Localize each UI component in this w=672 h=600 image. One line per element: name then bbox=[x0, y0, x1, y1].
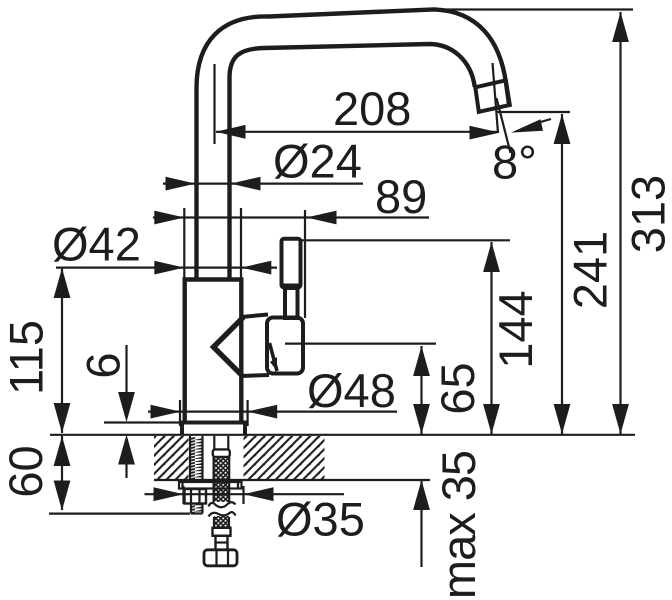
svg-text:8°: 8° bbox=[492, 136, 537, 189]
dim 313 bottom arrow bbox=[612, 404, 629, 434]
svg-text:89: 89 bbox=[375, 170, 427, 223]
dim 208 left arrow bbox=[216, 125, 246, 139]
dim O24 left arrow bbox=[166, 177, 196, 191]
ext line flange right bbox=[247, 400, 249, 426]
base flange bbox=[182, 423, 245, 435]
svg-text:208: 208 bbox=[333, 82, 411, 135]
dim 60 line bbox=[61, 436, 63, 510]
dim 65 top arrow bbox=[413, 346, 430, 376]
svg-text:241: 241 bbox=[564, 231, 617, 309]
svg-text:Ø48: Ø48 bbox=[307, 364, 396, 417]
dim O42 left arrow bbox=[154, 261, 184, 275]
ext line lever top (144) bbox=[302, 239, 510, 241]
dim 241 bottom arrow bbox=[554, 404, 571, 434]
dim O42 line bbox=[56, 267, 277, 269]
spout outer outline bbox=[197, 9, 510, 281]
hose break waves bbox=[209, 502, 236, 507]
lever bbox=[282, 239, 301, 288]
8 deg arrow bbox=[511, 119, 543, 132]
cone chevron bbox=[214, 317, 244, 377]
body top edge bbox=[183, 277, 244, 281]
mounting nut bbox=[185, 489, 207, 504]
dim 241 top arrow bbox=[554, 114, 571, 144]
dim 65 line bbox=[420, 346, 422, 434]
svg-text:144: 144 bbox=[489, 290, 542, 368]
ext line handle right bbox=[304, 210, 306, 318]
hose nipple bbox=[216, 536, 228, 550]
ext line flange left bbox=[179, 400, 181, 426]
svg-text:6: 6 bbox=[77, 352, 130, 378]
hose hex nut bbox=[204, 550, 237, 566]
svg-text:Ø24: Ø24 bbox=[273, 135, 362, 188]
aerator centerline bbox=[493, 63, 499, 133]
ext line 65 leader bbox=[285, 343, 436, 345]
ext line outlet (241) bbox=[497, 111, 570, 113]
dim O35 right arrow bbox=[244, 487, 274, 501]
counter hatch left bbox=[154, 436, 189, 479]
dim O35 line bbox=[145, 493, 345, 495]
threaded stud bbox=[190, 436, 203, 481]
dim 208 right arrow bbox=[470, 126, 500, 140]
ext line stud bottom (60) bbox=[49, 512, 190, 514]
stud end below nut bbox=[191, 504, 203, 514]
dim 89 left arrow bbox=[154, 211, 184, 225]
dim 60 bottom arrow bbox=[54, 481, 71, 511]
svg-text:60: 60 bbox=[0, 445, 52, 497]
ext line top (313) bbox=[430, 8, 633, 10]
cone top edge bbox=[241, 315, 268, 318]
dim 115 top arrow bbox=[54, 268, 71, 298]
dim 144 line bbox=[490, 242, 492, 434]
hose braided lower bbox=[214, 516, 229, 528]
dim O48 right arrow bbox=[247, 405, 277, 419]
dim 6 upper arrow bbox=[118, 392, 135, 422]
svg-text:65: 65 bbox=[431, 362, 484, 414]
dim 115 bottom arrow bbox=[54, 403, 71, 433]
lever divider bbox=[282, 284, 301, 287]
lever neck bbox=[285, 288, 298, 318]
hose ferrule bbox=[213, 528, 231, 536]
dim 144 bottom arrow bbox=[483, 404, 500, 434]
dim 89 line bbox=[153, 216, 429, 218]
svg-text:115: 115 bbox=[0, 320, 53, 395]
8 deg stub bbox=[537, 119, 551, 123]
dim 6 lower arrow bbox=[118, 435, 135, 465]
svg-text:max 35: max 35 bbox=[432, 451, 485, 599]
svg-text:313: 313 bbox=[622, 175, 672, 253]
dim 144 top arrow bbox=[483, 242, 500, 272]
ext line tube center bbox=[213, 64, 215, 144]
spout inner outline bbox=[230, 44, 475, 281]
dim 6 line upper bbox=[125, 345, 127, 395]
dim O35 left arrow bbox=[154, 487, 184, 501]
nipple line bbox=[216, 541, 228, 543]
ext stub hole left bbox=[182, 486, 184, 504]
svg-text:Ø35: Ø35 bbox=[276, 493, 365, 546]
dim 313 top arrow bbox=[612, 12, 629, 42]
ext line flange top bbox=[104, 421, 182, 423]
ext line body left bbox=[183, 208, 185, 278]
dim 313 line bbox=[619, 12, 621, 434]
counter hatch right bbox=[244, 436, 325, 479]
hose braided upper bbox=[214, 457, 230, 502]
cone bottom edge bbox=[241, 375, 269, 376]
dim O48 line bbox=[148, 411, 397, 413]
hose collar bbox=[213, 449, 230, 457]
countertop line bbox=[50, 434, 635, 436]
dim O48 left arrow bbox=[151, 405, 181, 419]
handle joint seam bbox=[270, 343, 278, 371]
dim O42 right arrow bbox=[241, 261, 271, 275]
dim O24 right arrow bbox=[231, 177, 261, 191]
dim 89 right arrow bbox=[307, 211, 337, 225]
body right edge bbox=[239, 279, 243, 423]
dim max35 arrow bbox=[413, 480, 430, 510]
dim 208 line bbox=[216, 131, 497, 133]
dim O24 line bbox=[163, 183, 363, 185]
hose upper neck bbox=[214, 436, 228, 449]
dim 60 top arrow bbox=[54, 436, 71, 466]
body left edge bbox=[182, 279, 186, 423]
dim 65 bottom arrow bbox=[413, 404, 430, 434]
dim 241 line bbox=[561, 114, 563, 434]
ext stub hole right bbox=[242, 486, 244, 504]
aerator bbox=[475, 80, 510, 112]
dim max35 line bbox=[420, 480, 422, 567]
svg-text:Ø42: Ø42 bbox=[52, 218, 141, 271]
counter bottom line bbox=[154, 479, 430, 481]
washer bbox=[179, 482, 242, 489]
ext line body right bbox=[240, 208, 242, 278]
dim 115 line bbox=[61, 268, 63, 433]
handle block bbox=[267, 318, 303, 374]
8 deg slant line bbox=[497, 98, 511, 153]
dim 6 line lower bbox=[125, 464, 127, 478]
